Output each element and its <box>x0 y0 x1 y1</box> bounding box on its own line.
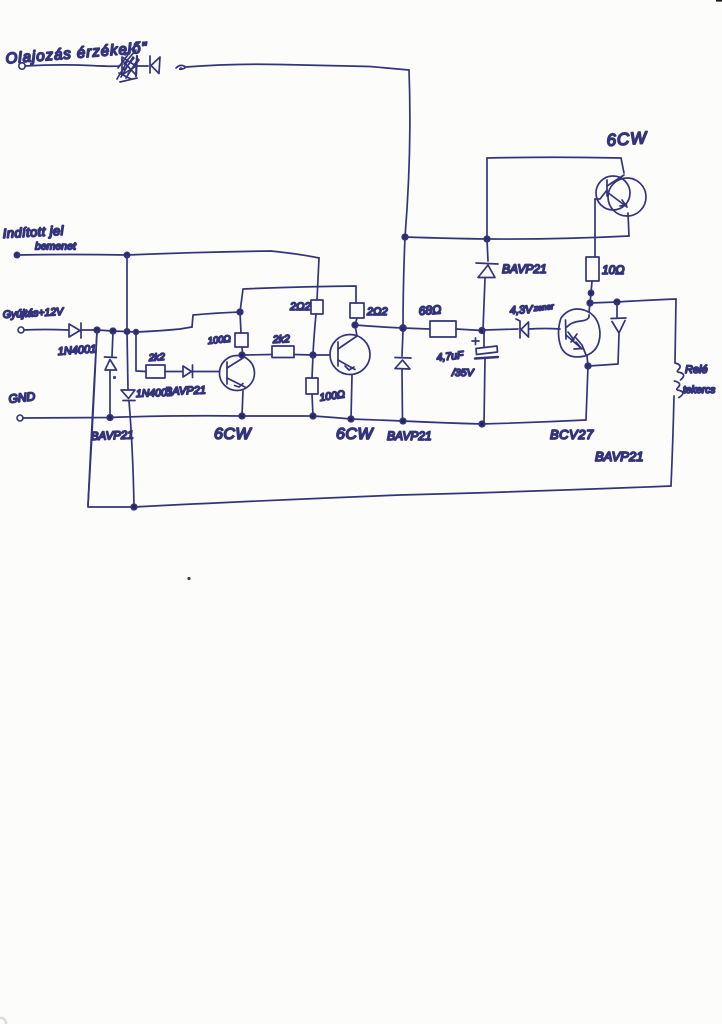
diode 1N4001 down (apex down, bar bottom) <box>121 390 135 401</box>
node: trigger rail start dot <box>14 252 19 257</box>
wire 2k2 to diode <box>165 371 182 373</box>
svg-text:bemenet: bemenet <box>35 241 77 253</box>
transistor Q3 6CW top <box>595 175 646 216</box>
wire 2R2#2 to collector node Q2 <box>355 318 357 325</box>
ink dot near zener left <box>113 376 116 379</box>
vertical x405: from top corner node down to mid-rail <box>403 237 405 328</box>
wire BAVP21 mid to GND <box>401 370 404 422</box>
resistor 68R horizontal <box>430 321 456 337</box>
svg-text:BAVP21: BAVP21 <box>595 449 643 464</box>
diode D2 left-pointing <box>150 56 160 74</box>
zener 4.3V (bar left) <box>516 319 529 338</box>
svg-text:2k2: 2k2 <box>147 352 165 364</box>
svg-text:68Ω: 68Ω <box>418 302 441 318</box>
wire diode bottom to emitter node <box>589 334 619 366</box>
diode BAVP21 top (bar top, apex up) <box>476 263 498 278</box>
svg-text:/35V: /35V <box>451 367 475 379</box>
relay coil lead bottom <box>671 396 674 486</box>
wire trigger rail <box>17 251 319 258</box>
node dot x487 on y237 <box>484 236 490 242</box>
transistor Q1 6CW <box>220 356 255 391</box>
node dot D <box>134 330 139 335</box>
wire BCV27 emitter down <box>587 356 588 366</box>
relay coil arcs <box>675 363 684 398</box>
diode D1 scribbled-out <box>117 48 139 82</box>
node dot C <box>124 329 129 334</box>
node dot at 100R top <box>237 309 243 315</box>
svg-text:GND: GND <box>8 389 36 406</box>
svg-text:Relé: Relé <box>685 364 708 376</box>
wire Q1 collector up to node <box>242 348 243 357</box>
wire from node D down to 2R2 h <box>136 332 146 372</box>
node dot BCV27 collector <box>587 300 593 306</box>
svg-text:BCV27: BCV27 <box>550 427 594 442</box>
node dot mid rail <box>400 325 406 331</box>
wire vertical from trigger rail node C down across +12V <box>127 255 128 389</box>
node dot emitter <box>585 363 591 369</box>
resistor 2k2 horizontal base Q1 <box>146 365 165 378</box>
node dot Q1 collector <box>239 352 245 358</box>
resistor 2k2 horizontal #2 <box>272 346 294 358</box>
resistor R 2R2 vertical #1 <box>311 300 323 314</box>
wire 100R#2 to GND <box>312 394 313 416</box>
node dot GND e <box>400 418 406 424</box>
resistor 100R #2 vertical <box>306 378 318 394</box>
scan artifact top-right corner <box>716 0 722 2</box>
svg-text:4,3V: 4,3V <box>510 304 535 317</box>
wire BAVP21 top: from x487 node down <box>487 239 488 261</box>
capacitor C1 top plate box <box>476 346 498 355</box>
wire zener to GND rail <box>109 371 111 418</box>
resistor 10R vertical <box>586 257 599 281</box>
wire Q2 collector node right to 68R <box>355 325 429 329</box>
wire Q1 emitter down to GND <box>242 391 243 416</box>
wire vertical from node B to zener <box>112 332 113 356</box>
wire zener to Q4 base <box>529 328 560 331</box>
node dot B <box>110 328 116 334</box>
capacitor C1 leads <box>484 331 485 424</box>
wire cap node to zener <box>485 329 518 330</box>
wire collector node right to relay top <box>590 299 676 303</box>
wire top rail y237 <box>405 236 629 239</box>
svg-text:2Ω2: 2Ω2 <box>289 301 311 313</box>
wire 10R bottom to BCV27 collector <box>590 281 592 303</box>
wire top run to right corner <box>186 64 409 70</box>
wire lower loop <box>88 332 671 507</box>
wire Q3 base line down x595 <box>594 199 596 257</box>
node: GND terminal <box>17 415 23 421</box>
node dot cap top <box>479 328 485 334</box>
svg-text:BAVP21: BAVP21 <box>91 430 134 443</box>
wire 100R top to node dot <box>240 312 241 333</box>
wire 68R to cap node <box>456 329 482 331</box>
svg-text:tekercs: tekercs <box>683 385 715 396</box>
wire Q2 collector to node <box>355 325 357 336</box>
wire emitter node down to GND corner <box>586 366 588 420</box>
wire collector node right through 2k2#2 <box>245 354 272 357</box>
wire vertical left loop from +12V node A down <box>88 330 97 505</box>
top rectangle: left vertical x487 from 158 <box>486 158 488 237</box>
relay coil lead top <box>675 299 676 362</box>
wire 2k2#2 to Q2 base <box>294 354 330 357</box>
wire node up and right to 2R2#2 <box>240 286 356 312</box>
diode BAVP21 mid (bar top, apex up) <box>395 358 411 370</box>
wire Q3 emitter down to y237 corner <box>628 213 629 236</box>
svg-text:6CW: 6CW <box>214 426 252 443</box>
resistor R 2R2 vertical #2 <box>350 303 364 318</box>
capacitor C1 electrolytic: plus sign <box>472 338 479 345</box>
svg-text:10Ω: 10Ω <box>602 263 624 277</box>
node dot Q2 collector <box>352 322 358 328</box>
wire between diodes <box>138 65 148 67</box>
wire diode to Q1 base <box>193 371 219 373</box>
svg-text:2Ω2: 2Ω2 <box>366 306 388 318</box>
node dot A <box>94 327 100 333</box>
node dot GND f <box>479 421 485 427</box>
svg-text:6CW: 6CW <box>606 128 649 150</box>
wire 1N4001 down to lower loop <box>129 401 134 507</box>
node dot GND c <box>310 413 316 419</box>
node dot GND a <box>107 415 113 421</box>
wire mid node down to BAVP21 <box>402 331 403 356</box>
diode BAVP21 base chain (apex right, bar right) <box>183 365 193 378</box>
capacitor C1 bottom plate <box>475 357 498 359</box>
transistor Q2 6CW <box>330 335 370 375</box>
svg-text:6CW: 6CW <box>336 426 374 443</box>
svg-text:BAVP21: BAVP21 <box>502 262 547 276</box>
wire top from terminal to scribbled diode <box>25 65 120 66</box>
wire BCV27 collector into circle <box>589 303 590 312</box>
diode BAVP21 zener left (bar top, apex up) <box>105 357 117 370</box>
wire gap dash blob <box>176 65 185 69</box>
wire GND rail <box>23 416 586 424</box>
node dot Q2 base <box>310 352 316 358</box>
node: +12V terminal <box>18 327 24 333</box>
svg-text:BAVP21: BAVP21 <box>165 385 206 398</box>
diode BAVP21 relay (bar top, apex down) <box>611 318 626 333</box>
top rectangle right vertical to Q3 <box>621 158 624 173</box>
node: oil sensor terminal <box>19 63 25 69</box>
wire Q2 emitter down to GND <box>351 375 352 419</box>
svg-text:2k2: 2k2 <box>272 333 291 346</box>
transistor Q4 BCV27 <box>559 309 601 357</box>
resistor 100R #1 vertical <box>235 333 248 347</box>
top rectangle top wire <box>487 156 621 159</box>
diode 1N4001 series <box>69 323 81 338</box>
wire diode top lead <box>616 302 618 317</box>
ink speck <box>187 577 190 580</box>
node dot top rail x405 <box>402 234 408 240</box>
wire +12V after diode <box>82 327 192 332</box>
node dot 10R bottom <box>588 290 593 295</box>
svg-text:BAVP21: BAVP21 <box>387 429 432 443</box>
wire BAVP21 top to cap node <box>483 279 485 331</box>
node junction on trigger rail <box>124 252 129 257</box>
wire resistor to base node <box>313 314 316 354</box>
node dot GND d <box>348 416 354 422</box>
wire vertical from top corner down <box>405 70 410 237</box>
node dot GND b <box>239 413 245 419</box>
node dot lower loop <box>131 504 137 510</box>
wire 100R#2 from base node down <box>312 355 313 378</box>
wire +12V to diode <box>24 329 68 332</box>
wire from trigger rail corner down to resistor <box>317 258 319 300</box>
wire +12V up-step to 100R top <box>192 312 240 327</box>
scan smudge bottom-left corner <box>0 1018 6 1024</box>
node dot diode top <box>614 299 620 305</box>
